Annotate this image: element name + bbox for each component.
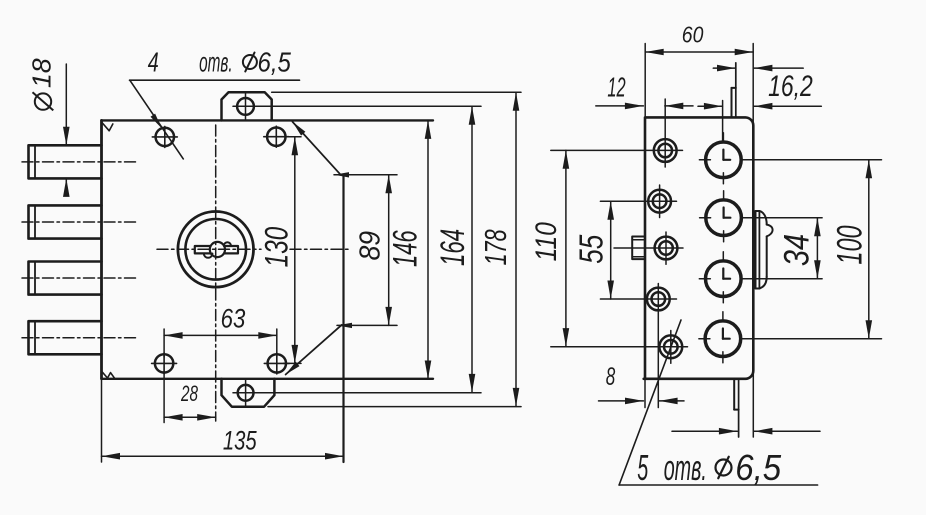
svg-text:100: 100 bbox=[829, 225, 869, 264]
top mounting tab bbox=[222, 92, 272, 120]
svg-text:63: 63 bbox=[221, 304, 246, 334]
hole 4 vertical tick and 8 extension bbox=[657, 284, 659, 408]
dimension 55 bbox=[610, 201, 612, 299]
hole 2 centerline and 55 extension bbox=[600, 200, 676, 202]
bottom small dimension right view bbox=[752, 370, 754, 437]
svg-text:110: 110 bbox=[530, 222, 563, 262]
bolt end circle 2 bbox=[706, 200, 742, 236]
svg-text:55: 55 bbox=[573, 234, 610, 263]
svg-text:178: 178 bbox=[478, 229, 513, 265]
hole bottom-left of body bbox=[155, 354, 173, 372]
svg-text:6,5: 6,5 bbox=[257, 46, 291, 77]
screw hole 2 side view bbox=[648, 190, 671, 213]
side plate outline bbox=[644, 117, 754, 378]
cylinder inner circle bbox=[185, 219, 246, 280]
bolt 2 centerline bbox=[22, 221, 136, 223]
svg-text:16,2: 16,2 bbox=[768, 70, 813, 103]
bolt end circle 4 bbox=[705, 321, 741, 357]
bottom thin tab of plate bbox=[733, 379, 735, 410]
cylinder vertical centerline bbox=[215, 125, 217, 421]
bolt end circle 1 bbox=[706, 142, 742, 178]
bottom tab hole bbox=[238, 385, 254, 401]
bolt 1 centerline bbox=[22, 161, 136, 163]
hole top-right of body bbox=[267, 128, 285, 146]
bolt 4 bbox=[29, 321, 102, 354]
dimension 60 bbox=[644, 44, 646, 117]
hole 3 vertical tick bbox=[665, 232, 667, 264]
hole 1 centerline and 110 extension bbox=[551, 149, 683, 151]
cylinder horizontal centerline bbox=[157, 248, 261, 250]
dimension 130 bbox=[284, 136, 302, 138]
hole 1 vertical tick and 12 extension bbox=[664, 99, 666, 167]
svg-text:6,5: 6,5 bbox=[735, 447, 782, 488]
bolt 4 centerline bbox=[22, 337, 136, 339]
svg-text:отв.: отв. bbox=[664, 447, 707, 488]
svg-text:89: 89 bbox=[354, 231, 386, 261]
top thin tab of plate bbox=[731, 88, 733, 118]
screw hole 5 side view bbox=[659, 335, 682, 358]
hole 5 centerline and 110 extension bbox=[551, 346, 688, 348]
top tab hole centerline and 164 extension bbox=[233, 105, 481, 107]
circle 1 top extension for 16,2 bbox=[722, 101, 724, 142]
svg-text:4: 4 bbox=[148, 46, 159, 77]
dimension 28 bbox=[163, 371, 165, 423]
bolt 3 centerline bbox=[22, 277, 136, 279]
hole 3 centerline bbox=[614, 247, 683, 249]
dimension 178 bbox=[515, 92, 517, 406]
break mark top-left bbox=[102, 122, 113, 131]
top tab hole bbox=[237, 98, 254, 115]
break mark bottom-left bbox=[102, 371, 116, 379]
cylinder collar on plate left side bbox=[632, 237, 645, 260]
dimension 63 bbox=[163, 329, 165, 357]
dimension 12 bbox=[596, 105, 644, 107]
dimension 16,2 bbox=[698, 105, 722, 107]
dimension 100 bbox=[868, 160, 870, 339]
bolt 1 bbox=[29, 145, 102, 178]
hole 5 vertical tick bbox=[670, 331, 672, 364]
bolt hook bar on plate right side bbox=[755, 211, 757, 289]
bottom tab hole centerline and 164 extension bbox=[233, 392, 481, 394]
tab bottom extension line for 178 bbox=[268, 406, 521, 408]
svg-text:8: 8 bbox=[606, 364, 616, 391]
svg-text:18: 18 bbox=[26, 58, 56, 88]
svg-text:164: 164 bbox=[434, 229, 472, 266]
upper small dimension right view bbox=[713, 67, 735, 69]
jogged extension bottom for 89 bbox=[286, 325, 342, 375]
svg-text:28: 28 bbox=[180, 381, 198, 406]
dimension 34 bbox=[816, 218, 818, 279]
hole top-left of body bbox=[156, 128, 174, 146]
screw hole 3 side view bbox=[655, 237, 678, 260]
dimension diameter 18 bbox=[65, 64, 67, 145]
circle 4 centerline and 100 extension bbox=[741, 338, 882, 340]
label 5 otv 6.5 with leader through hole 5 bbox=[619, 320, 681, 485]
svg-text:отв.: отв. bbox=[199, 46, 233, 77]
tab top extension line for 178 bbox=[272, 91, 521, 93]
svg-text:146: 146 bbox=[387, 230, 425, 267]
circle 2 centerline and 34 extension bbox=[742, 217, 823, 219]
svg-text:130: 130 bbox=[258, 227, 294, 268]
cylinder outer circle bbox=[178, 212, 254, 288]
circle 1 centerline and 100 extension bbox=[741, 159, 881, 161]
bolt 3 bbox=[29, 262, 102, 295]
dimension 146 bbox=[427, 120, 429, 379]
svg-text:60: 60 bbox=[682, 21, 704, 47]
svg-text:135: 135 bbox=[223, 425, 258, 455]
svg-text:34: 34 bbox=[777, 234, 817, 266]
body right edge bbox=[342, 175, 344, 462]
screw hole 4 side view bbox=[647, 288, 670, 311]
bolt end circle 3 bbox=[706, 261, 742, 297]
hole 2 vertical tick bbox=[659, 185, 661, 218]
dimension 135 bbox=[101, 379, 103, 462]
lock body outline left view bbox=[100, 120, 103, 378]
dimension 89 bbox=[388, 175, 390, 326]
screw hole 1 side view bbox=[654, 139, 677, 162]
bolt 2 bbox=[29, 205, 102, 238]
keyhole bbox=[210, 242, 225, 257]
hole 4 centerline and 55 extension bbox=[600, 298, 676, 300]
hole bottom-right of body bbox=[268, 354, 286, 372]
dimension 164 bbox=[471, 106, 473, 392]
svg-text:5: 5 bbox=[637, 447, 649, 488]
dimension 110 bbox=[565, 150, 567, 346]
bottom mounting tab bbox=[222, 379, 275, 407]
svg-text:12: 12 bbox=[607, 71, 625, 102]
dimension 8 bbox=[644, 379, 646, 408]
jogged extension top for 89 bbox=[293, 122, 341, 175]
circle 3 centerline and 34 extension bbox=[741, 278, 822, 280]
